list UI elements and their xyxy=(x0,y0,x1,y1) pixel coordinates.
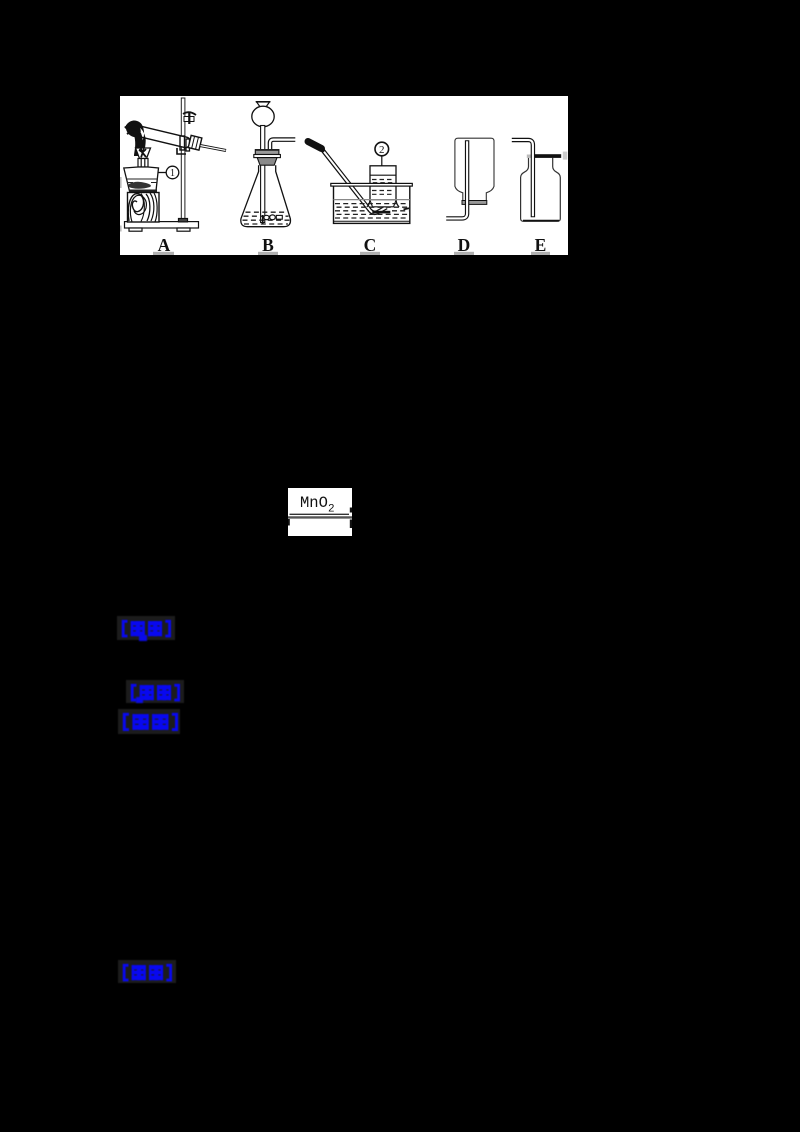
bottle outline xyxy=(455,138,494,200)
collection bottle (inverted in trough) xyxy=(367,166,399,207)
flame / black smoke at tube closed end xyxy=(127,120,146,155)
glass cover plate xyxy=(535,154,561,158)
inner tube of D xyxy=(446,140,467,218)
blue drip artifact under label 1 xyxy=(139,635,147,641)
thin delivery tube from stopper xyxy=(200,146,226,151)
clamp jaw on tube xyxy=(177,136,190,154)
test tube (nearly horizontal, closed end left over flame) xyxy=(129,124,192,149)
dark band between lamp and block xyxy=(129,190,157,193)
rubber stopper of B xyxy=(254,149,281,165)
thistle funnel bulb xyxy=(252,106,274,127)
stand rod xyxy=(181,98,185,222)
lamp liquid (alcohol) xyxy=(126,179,158,183)
dashes inside bottle xyxy=(372,180,394,195)
bottle bottom thick line xyxy=(523,220,559,222)
gray caret mark under E xyxy=(531,252,550,255)
liquid dashes in flask xyxy=(243,212,290,224)
alcohol lamp wick holder xyxy=(138,159,148,168)
wooden block xyxy=(128,193,160,223)
gray caret mark under A xyxy=(153,252,174,255)
MnO2 condition box (equation fragment) xyxy=(288,488,352,537)
faint gray slivers at panel left edge xyxy=(120,177,122,188)
funnel stem tip marks in liquid xyxy=(263,215,283,224)
stopper at tube mouth (right) xyxy=(188,135,202,150)
trough body xyxy=(334,186,410,224)
trough rim xyxy=(331,183,413,186)
svg-text:2: 2 xyxy=(379,144,385,156)
blue section label 3 (fenxi) xyxy=(118,709,182,735)
svg-text:1: 1 xyxy=(170,168,175,179)
label circle 2 xyxy=(375,142,389,166)
stand base xyxy=(125,219,199,232)
blue section label 2 (zhuanti) xyxy=(126,680,186,704)
flask (erlenmeyer) xyxy=(241,165,291,227)
flame cone above wick xyxy=(136,148,151,159)
delivery tube of B xyxy=(270,140,296,151)
small tick in water right side xyxy=(404,208,410,209)
blue section label 4 (jieda) xyxy=(118,960,178,984)
gray placeholder square at right xyxy=(563,152,568,160)
upper thin line of equals arrow xyxy=(290,513,350,515)
apparatus figure white panel xyxy=(120,96,568,255)
black water-gas interface under bottle mouth xyxy=(372,211,390,214)
cut-off ink marks at edges xyxy=(350,507,352,512)
water dashes in trough xyxy=(335,204,409,218)
label circle 1 xyxy=(159,166,179,179)
water surface line xyxy=(334,199,410,201)
gray caret mark under B xyxy=(258,252,278,255)
lower thick line of equals arrow xyxy=(288,516,352,518)
diagonal delivery tube with black rubber tip xyxy=(308,142,387,213)
neck outlet band xyxy=(462,201,487,205)
clamp bolt on rod xyxy=(183,112,196,125)
gray caret mark under C xyxy=(360,252,380,255)
bottle body xyxy=(521,158,561,222)
blue section label 1 (kaodian) xyxy=(117,616,177,640)
blue drip artifact under label 2 xyxy=(136,697,143,703)
bent delivery tube of E xyxy=(511,140,533,217)
funnel stem xyxy=(261,126,265,223)
alcohol lamp body xyxy=(124,167,159,191)
thistle funnel trumpet xyxy=(257,102,270,108)
svg-text:MnO: MnO xyxy=(300,494,328,512)
gray caret mark under D xyxy=(454,252,474,255)
